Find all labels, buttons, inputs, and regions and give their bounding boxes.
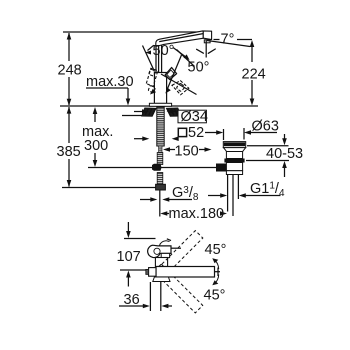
Ø34 boxed label [178, 110, 206, 123]
deck underside line [122, 115, 146, 117]
dim 385 bottom tick line [62, 187, 156, 189]
G1 1/4 underline [250, 195, 281, 197]
side view center reference line [120, 269, 152, 271]
svg-text:40-53: 40-53 [266, 146, 303, 162]
base flare [153, 277, 170, 282]
handle top view [148, 245, 171, 257]
mounting shank threaded [157, 107, 164, 146]
spout bar [156, 31, 212, 47]
drain body lower [226, 163, 242, 171]
svg-text:52: 52 [188, 125, 204, 141]
angle extension line 2 [167, 55, 182, 91]
svg-text:45°: 45° [204, 288, 226, 304]
svg-text:7°: 7° [221, 32, 235, 48]
aerator axis line [205, 40, 207, 58]
max.300 dim line [93, 107, 98, 167]
washer wing left [142, 108, 156, 116]
pop-up rod line [88, 167, 217, 169]
drain body upper [226, 152, 242, 159]
angle extension line 3 [177, 50, 195, 67]
svg-text:Ø63: Ø63 [252, 119, 279, 135]
drain nut [226, 171, 242, 175]
dim 36 [119, 304, 172, 309]
dim 385 vertical line [67, 107, 72, 187]
svg-text:385: 385 [57, 144, 81, 160]
angle arc arrow b [173, 48, 190, 61]
drain flange cap [223, 142, 245, 148]
dim 150 [163, 147, 212, 152]
angle extension line 4 [161, 74, 197, 95]
nozzle inner line [202, 32, 204, 39]
washer wing right [167, 108, 181, 116]
handle neck top view [161, 253, 169, 257]
max.180 dim [160, 211, 227, 216]
threaded hose segment [157, 153, 163, 165]
spout centerline cross [215, 271, 221, 273]
swivel dashed bar up [154, 231, 203, 280]
dim O63 [205, 128, 277, 140]
angle arrowhead d [165, 88, 171, 94]
handle dashed position right [172, 81, 189, 95]
side view top reference line [124, 238, 156, 240]
deck line [60, 105, 258, 107]
svg-text:248: 248 [58, 63, 82, 79]
Ø34 callout arrows [134, 109, 178, 114]
lever handle solid [165, 68, 176, 80]
drain rod joint [216, 164, 227, 172]
dim 40-53 arrows [282, 134, 287, 177]
G3/8 arrows [140, 197, 172, 202]
dim 224 line [250, 40, 255, 106]
svg-text:36: 36 [124, 292, 140, 308]
7 deg tilted line [207, 41, 250, 47]
faucet body [154, 73, 166, 104]
base flange [149, 103, 171, 106]
svg-text:107: 107 [117, 249, 141, 265]
body top view [155, 258, 167, 267]
spout inner line [159, 34, 203, 42]
G3/8 underline [172, 199, 192, 201]
rod T-joint [152, 164, 162, 171]
svg-text:50°: 50° [188, 60, 210, 76]
handle curl marks [160, 241, 170, 246]
G1 1/4 arrows [208, 193, 250, 198]
7 deg arc arrows [197, 49, 216, 53]
dim 40-53 extension lines [247, 145, 289, 147]
svg-text:Ø34: Ø34 [181, 109, 208, 125]
drain gasket band [224, 159, 244, 163]
max.30 leader underline [86, 87, 128, 89]
7 deg tick line [214, 39, 220, 41]
dim 248 vertical line [67, 33, 72, 106]
angle arrowhead c [150, 89, 156, 95]
drain neck [224, 148, 246, 152]
threaded stud upper [159, 146, 162, 153]
square52 callout arrows [134, 136, 179, 141]
top extent tick line [63, 31, 202, 33]
hose end nut [156, 184, 166, 190]
angle extension line 1 [143, 46, 155, 72]
aerator [204, 40, 210, 43]
swivel arc up arrow [214, 260, 219, 270]
svg-text:150: 150 [175, 144, 199, 160]
back connector [149, 268, 156, 277]
threaded hose lower segment [157, 173, 163, 185]
svg-text:45°: 45° [205, 242, 227, 258]
riser tube [156, 45, 162, 72]
angle arc arrow a [145, 45, 154, 54]
square52 label [178, 128, 186, 136]
max.30 leader arrow to deck [126, 88, 131, 106]
svg-text:max.180: max.180 [169, 206, 225, 222]
svg-text:300: 300 [84, 138, 108, 154]
handle dashed position left [146, 68, 158, 93]
spout bar top view [156, 267, 215, 278]
drain tailpipe [228, 175, 239, 217]
swivel dashed bar down [154, 264, 203, 313]
svg-text:224: 224 [242, 67, 266, 83]
swivel arc down arrow [214, 275, 219, 285]
svg-text:50°: 50° [153, 43, 175, 59]
dim 107 [126, 222, 131, 287]
max.180 extension line [159, 190, 161, 217]
dim 36 extension lines [149, 282, 151, 311]
